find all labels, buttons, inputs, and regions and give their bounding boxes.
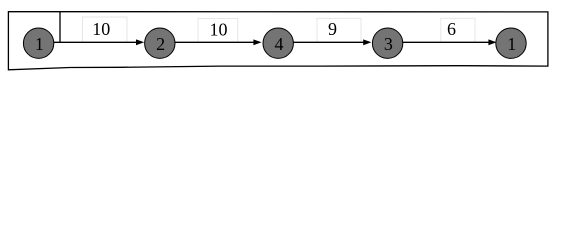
svg-text:6: 6 bbox=[447, 19, 456, 39]
svg-text:10: 10 bbox=[210, 20, 228, 40]
vertical divider line bbox=[59, 12, 61, 43]
edge 4 to 3 wire bbox=[294, 39, 372, 45]
node 1 end bbox=[496, 28, 526, 58]
node 2 bbox=[145, 28, 175, 58]
edge 3 to 1 wire bbox=[403, 39, 497, 45]
weight 6 edge 3-1 bbox=[447, 19, 456, 39]
node 4 bbox=[263, 28, 293, 58]
weight label box 10 (edge 2-4) bbox=[198, 19, 238, 43]
node 1 bbox=[23, 28, 53, 58]
weight label box 6 (edge 3-1) bbox=[441, 18, 475, 42]
svg-text:3: 3 bbox=[384, 34, 393, 54]
outer border frame bbox=[8, 12, 548, 70]
svg-text:1: 1 bbox=[35, 34, 44, 54]
node 3 bbox=[372, 28, 402, 58]
weight 10 edge 2-4 bbox=[210, 20, 228, 40]
svg-text:1: 1 bbox=[507, 34, 516, 54]
svg-text:2: 2 bbox=[156, 34, 165, 54]
weight label box 10 (edge 1-2) bbox=[83, 17, 128, 42]
weight label box 9 (edge 4-3) bbox=[317, 18, 361, 42]
weight 10 edge 1-2 bbox=[92, 19, 110, 39]
svg-text:10: 10 bbox=[92, 19, 110, 39]
svg-text:9: 9 bbox=[328, 19, 337, 39]
svg-text:4: 4 bbox=[275, 34, 284, 54]
edge 1 to 2 wire bbox=[53, 39, 144, 45]
weight 9 edge 4-3 bbox=[328, 19, 337, 39]
edge 2 to 4 wire bbox=[175, 39, 262, 45]
